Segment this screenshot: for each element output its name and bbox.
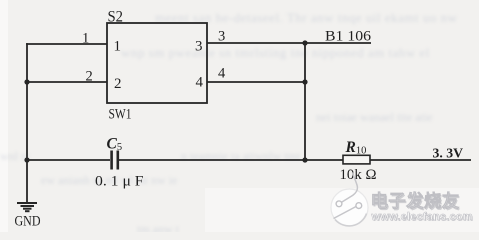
svg-text:www.elecfans.com: www.elecfans.com [371,211,473,223]
svg-text:10k Ω: 10k Ω [340,167,377,183]
svg-text:2: 2 [86,69,93,85]
svg-text:4: 4 [218,66,226,82]
wire pin 1 [26,43,107,45]
junction: left vertical / bottom wire [24,157,29,162]
svg-text:1: 1 [82,31,89,47]
svg-text:电子发烧友: 电子发烧友 [371,191,460,211]
wire pin 3 [207,42,371,44]
svg-text:0. 1 μ F: 0. 1 μ F [95,174,144,190]
resistor R10 [343,155,370,164]
junction: pin4 / right vertical [302,79,307,84]
junction: pin3 / right vertical [302,40,307,45]
switch S2 body (SW1) [107,23,207,103]
wire bottom left (to C5) [27,159,110,161]
svg-text:3. 3V: 3. 3V [433,147,464,162]
svg-text:4: 4 [196,75,204,91]
svg-text:SW1: SW1 [109,107,132,123]
svg-text:1: 1 [114,39,122,55]
svg-text:tm anw t: tm anw t [137,222,180,232]
svg-text:nei toiae wanael tite atie: nei toiae wanael tite atie [316,110,433,124]
capacitor C5 [112,151,118,170]
wire right vertical [304,43,306,160]
wire pin 4 [207,81,305,83]
svg-text:S2: S2 [108,8,124,25]
svg-text:GND: GND [15,214,41,230]
wire GND drop [26,160,28,203]
wire pin 2 [27,81,107,83]
svg-text:3: 3 [195,39,203,55]
svg-text:B1 106: B1 106 [325,29,371,45]
wire R10 to 3.3V [370,159,471,161]
elecfans watermark logo [331,173,368,227]
ground [17,203,37,211]
svg-text:3: 3 [218,29,225,45]
svg-text:2: 2 [114,76,122,92]
svg-text:wnp sm pweanle sn tmrlsting tn: wnp sm pweanle sn tmrlsting tne nipponed… [121,45,430,60]
junction: right vertical / bottom wire [302,157,307,162]
elecfans watermark text [371,191,474,224]
wire bottom middle (C5 to R10) [119,159,343,161]
wire left vertical [26,43,28,160]
junction: pin2 / left vertical [24,79,29,84]
